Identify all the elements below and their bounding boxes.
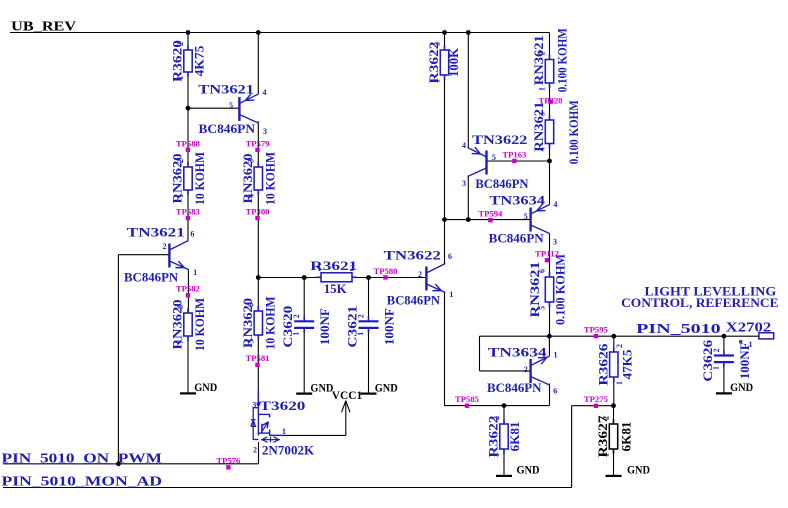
- svg-text:TP300: TP300: [246, 207, 270, 216]
- svg-text:2: 2: [350, 264, 354, 273]
- svg-text:1: 1: [317, 264, 321, 273]
- svg-text:1: 1: [292, 332, 301, 336]
- svg-text:TP581: TP581: [246, 354, 270, 363]
- svg-text:100NF: 100NF: [382, 308, 397, 345]
- svg-text:2: 2: [357, 314, 366, 318]
- svg-text:3: 3: [252, 400, 256, 409]
- svg-text:PIN_5010_ON_PWM: PIN_5010_ON_PWM: [2, 451, 163, 466]
- svg-text:BC846PN: BC846PN: [489, 231, 545, 246]
- svg-text:7: 7: [176, 340, 185, 344]
- svg-text:TP585: TP585: [455, 395, 479, 404]
- svg-text:1: 1: [433, 79, 442, 83]
- svg-text:1: 1: [602, 453, 611, 457]
- svg-text:GND: GND: [194, 382, 217, 394]
- svg-text:TP163: TP163: [502, 150, 526, 159]
- svg-text:2: 2: [163, 242, 167, 251]
- svg-text:4: 4: [538, 148, 547, 152]
- svg-text:2: 2: [253, 445, 257, 454]
- svg-text:RN3621: RN3621: [531, 102, 546, 152]
- svg-text:15K: 15K: [324, 281, 348, 296]
- svg-text:GND: GND: [730, 382, 753, 394]
- svg-text:6K81: 6K81: [507, 422, 522, 452]
- svg-text:6: 6: [538, 269, 547, 273]
- svg-text:1: 1: [615, 381, 624, 385]
- svg-text:BC846PN: BC846PN: [199, 121, 256, 136]
- svg-text:R3622: R3622: [426, 42, 441, 84]
- svg-text:TN3634: TN3634: [490, 192, 546, 207]
- svg-text:TN3622: TN3622: [384, 247, 441, 262]
- svg-text:R3627: R3627: [595, 415, 610, 458]
- svg-text:5: 5: [538, 306, 547, 310]
- svg-text:2: 2: [712, 349, 721, 353]
- svg-text:BC846PN: BC846PN: [387, 293, 441, 308]
- svg-text:6K81: 6K81: [619, 422, 634, 452]
- svg-text:GND: GND: [310, 382, 333, 394]
- svg-text:4K75: 4K75: [192, 45, 207, 77]
- svg-text:5: 5: [229, 101, 233, 110]
- svg-text:1: 1: [711, 366, 720, 370]
- svg-text:6: 6: [448, 252, 452, 261]
- svg-text:TP275: TP275: [584, 395, 608, 404]
- svg-text:3: 3: [263, 127, 267, 136]
- svg-text:4: 4: [462, 141, 466, 150]
- svg-text:T3620: T3620: [260, 398, 306, 413]
- svg-text:6: 6: [190, 230, 194, 239]
- svg-text:TP582: TP582: [176, 285, 200, 294]
- svg-text:C3621: C3621: [345, 306, 360, 348]
- svg-text:TP112: TP112: [535, 250, 559, 259]
- svg-text:2: 2: [176, 42, 185, 46]
- svg-text:1: 1: [538, 87, 547, 91]
- svg-text:4: 4: [554, 200, 558, 209]
- svg-text:TP583: TP583: [176, 207, 200, 216]
- svg-text:1: 1: [449, 290, 453, 299]
- svg-text:47K5: 47K5: [619, 349, 634, 379]
- svg-text:1: 1: [492, 453, 501, 457]
- svg-text:R3622: R3622: [486, 416, 501, 458]
- svg-text:100K: 100K: [446, 47, 461, 77]
- svg-text:10 KOHM: 10 KOHM: [262, 297, 277, 350]
- svg-text:TN3622: TN3622: [472, 132, 527, 147]
- svg-text:GND: GND: [375, 382, 398, 394]
- svg-text:X2702: X2702: [726, 320, 772, 335]
- svg-text:GND: GND: [517, 465, 540, 477]
- svg-text:C3626: C3626: [700, 339, 715, 382]
- svg-text:1: 1: [176, 194, 185, 198]
- svg-text:1: 1: [282, 427, 286, 436]
- svg-text:RN3621: RN3621: [531, 35, 546, 85]
- svg-text:BC846PN: BC846PN: [124, 269, 179, 284]
- svg-text:0.100 KOHM: 0.100 KOHM: [566, 100, 581, 164]
- svg-text:1: 1: [554, 351, 558, 360]
- svg-text:TN3634: TN3634: [488, 344, 547, 359]
- svg-text:2: 2: [176, 159, 185, 163]
- svg-text:VCC1: VCC1: [332, 388, 362, 402]
- svg-text:2: 2: [292, 314, 301, 318]
- svg-text:0.100 KOHM: 0.100 KOHM: [553, 254, 568, 325]
- svg-text:10 KOHM: 10 KOHM: [262, 152, 277, 205]
- svg-text:5: 5: [492, 153, 496, 162]
- svg-text:2: 2: [524, 365, 528, 374]
- svg-text:BC846PN: BC846PN: [487, 380, 542, 395]
- svg-text:1: 1: [356, 332, 365, 336]
- svg-text:1: 1: [749, 340, 753, 349]
- svg-text:GND: GND: [627, 465, 650, 477]
- svg-text:PIN_5010: PIN_5010: [636, 322, 721, 337]
- svg-text:CONTROL, REFERENCE: CONTROL, REFERENCE: [621, 295, 779, 310]
- svg-text:10 KOHM: 10 KOHM: [192, 152, 207, 205]
- svg-text:2N7002K: 2N7002K: [262, 442, 315, 457]
- svg-text:TN3621: TN3621: [198, 81, 254, 96]
- svg-text:8: 8: [176, 305, 185, 309]
- svg-text:UB_REV: UB_REV: [11, 20, 76, 35]
- svg-text:TP328: TP328: [539, 97, 563, 106]
- svg-text:2: 2: [615, 344, 624, 348]
- svg-text:TP580: TP580: [374, 267, 398, 276]
- svg-text:2: 2: [538, 52, 547, 56]
- svg-text:3: 3: [247, 159, 256, 163]
- svg-text:3: 3: [538, 112, 547, 116]
- svg-text:6: 6: [247, 303, 256, 307]
- svg-text:3: 3: [462, 179, 466, 188]
- svg-text:2: 2: [433, 42, 442, 46]
- svg-text:4: 4: [263, 88, 267, 97]
- svg-text:PIN_5010_MON_AD: PIN_5010_MON_AD: [2, 474, 163, 489]
- svg-text:5: 5: [524, 212, 528, 221]
- svg-text:10 KOHM: 10 KOHM: [192, 298, 207, 351]
- svg-text:3: 3: [553, 238, 557, 247]
- svg-text:TP576: TP576: [216, 457, 240, 466]
- svg-text:2: 2: [418, 270, 422, 279]
- svg-text:5: 5: [247, 339, 256, 343]
- svg-text:TN3621: TN3621: [127, 225, 185, 240]
- svg-text:1: 1: [193, 268, 197, 277]
- svg-text:C3620: C3620: [280, 306, 295, 348]
- svg-text:4: 4: [247, 194, 256, 198]
- svg-text:100NF: 100NF: [317, 308, 332, 345]
- svg-text:R3626: R3626: [595, 343, 610, 386]
- svg-text:6: 6: [553, 387, 557, 396]
- svg-text:2: 2: [492, 416, 501, 420]
- svg-text:TP594: TP594: [478, 210, 502, 219]
- svg-text:2: 2: [602, 416, 611, 420]
- svg-text:BC846PN: BC846PN: [475, 176, 529, 191]
- svg-text:TP588: TP588: [176, 139, 200, 148]
- svg-text:TP579: TP579: [246, 139, 270, 148]
- svg-text:1: 1: [176, 76, 185, 80]
- svg-text:TP595: TP595: [584, 326, 608, 335]
- svg-text:0.100 KOHM: 0.100 KOHM: [555, 28, 570, 92]
